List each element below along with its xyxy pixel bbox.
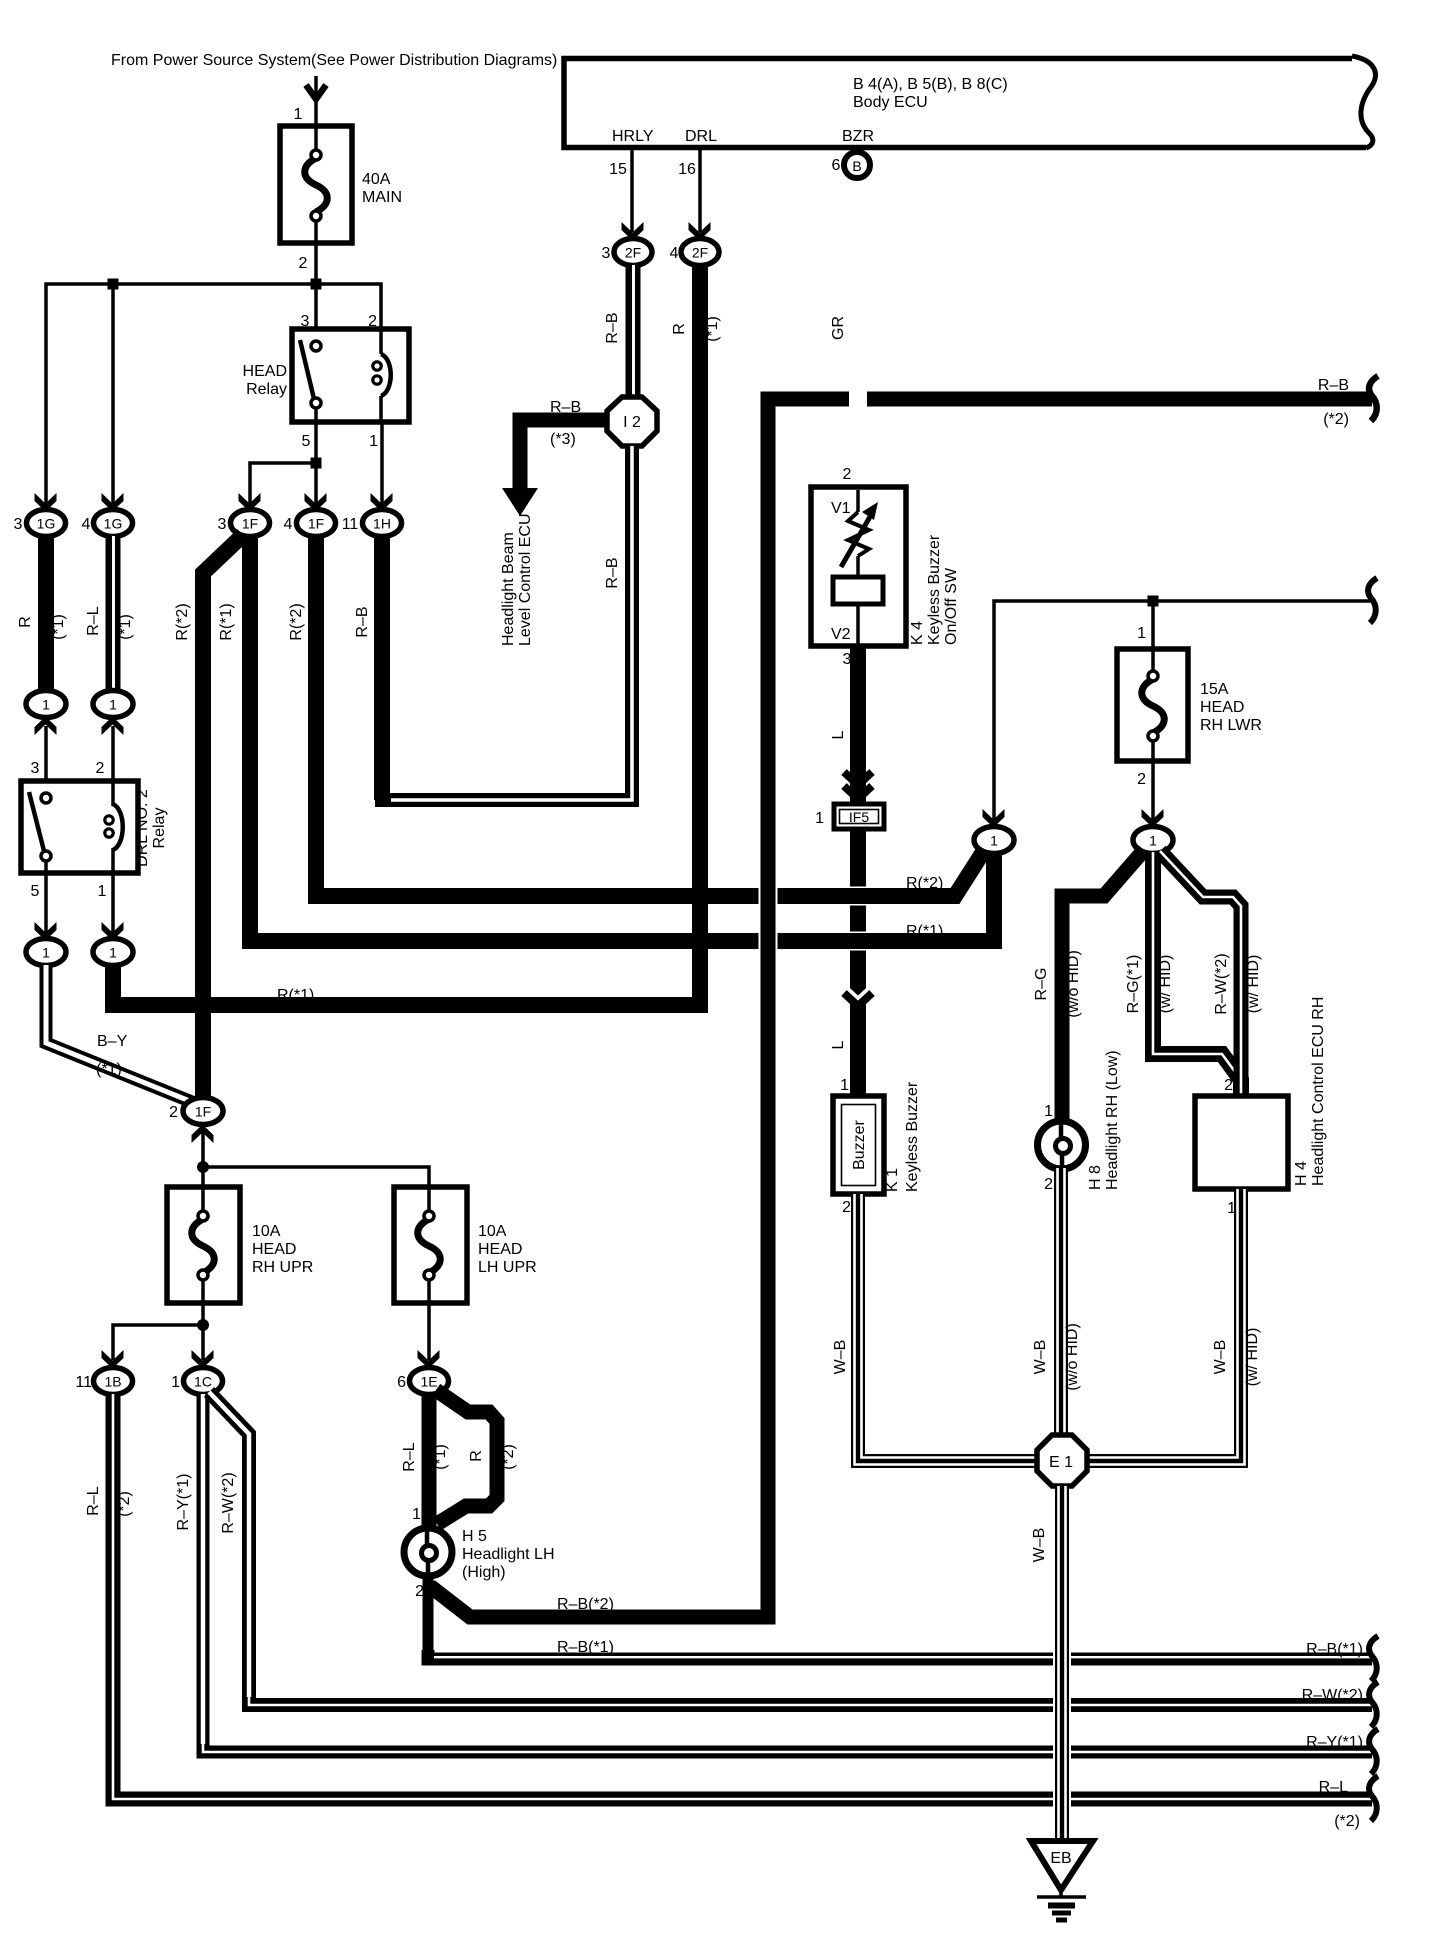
svg-text:HEAD: HEAD (478, 1241, 522, 1258)
connector 4 2F (681, 239, 719, 266)
junction oval 1 (left, R wire) (26, 691, 66, 718)
svg-text:3: 3 (14, 516, 23, 533)
svg-text:K 1: K 1 (884, 1168, 901, 1192)
svg-text:From Power Source System(See P: From Power Source System(See Power Distr… (111, 52, 557, 69)
curl ends of bottom wires at right edge (1369, 1636, 1378, 1681)
svg-text:R–W(*2): R–W(*2) (1302, 1687, 1363, 1704)
svg-text:DRL: DRL (685, 128, 717, 145)
junction oval 1 (left) (974, 827, 1014, 854)
svg-text:(*1): (*1) (96, 1061, 122, 1078)
wire: HRLY pin15 down to 2F(3) (630, 150, 634, 232)
svg-text:BZR: BZR (842, 128, 874, 145)
connector 11 1H (363, 510, 402, 537)
svg-text:Body ECU: Body ECU (853, 94, 928, 111)
svg-text:1H: 1H (373, 516, 391, 532)
svg-text:W–B: W–B (1032, 1340, 1049, 1375)
svg-text:1C: 1C (194, 1374, 212, 1390)
svg-text:R–L: R–L (401, 1442, 418, 1471)
wire: top distribution bus y=284 (46, 284, 381, 505)
junction dot on 15A bus (1148, 596, 1159, 607)
connector 4 1G (94, 510, 133, 537)
box: Body ECU (564, 56, 1375, 148)
svg-text:R–W(*2): R–W(*2) (220, 1472, 237, 1533)
wire from oval(46,704) down to DRL relay pin3 (44, 726, 48, 798)
svg-text:3: 3 (31, 760, 40, 777)
svg-text:R–B: R–B (354, 606, 371, 637)
svg-text:(*2): (*2) (116, 1491, 133, 1517)
svg-text:1: 1 (109, 945, 117, 961)
svg-text:V2: V2 (831, 626, 851, 643)
svg-text:R: R (468, 1450, 485, 1462)
bulb H8 Headlight RH (Low) (1038, 1050, 1122, 1193)
svg-text:3: 3 (301, 313, 310, 330)
wire from oval(113,704) down to DRL relay pin2 (111, 726, 115, 807)
wire R-L (*2) striped from 1B down and right to page edge (113, 1394, 1372, 1799)
wire R(*1) heavy from 1F(3) down then right (250, 536, 994, 941)
svg-text:R(*1): R(*1) (906, 923, 943, 940)
wire R-B from 2F(3) down to I2 (striped heavy) (626, 265, 641, 400)
svg-text:3: 3 (843, 651, 852, 668)
svg-text:(w/o HID): (w/o HID) (1064, 1323, 1081, 1391)
wire DRL pin1 down (111, 873, 115, 933)
fuse 40A MAIN (280, 126, 402, 243)
svg-text:1F: 1F (195, 1104, 211, 1120)
svg-text:R: R (17, 616, 34, 628)
svg-text:11: 11 (75, 1374, 92, 1391)
svg-text:(*2): (*2) (1334, 1813, 1360, 1830)
svg-text:1B: 1B (104, 1374, 121, 1390)
wire DRL pin5 down (44, 861, 48, 933)
wire: relay pin1 down to 1H (380, 422, 384, 505)
svg-text:(w/ HID): (w/ HID) (1245, 955, 1262, 1014)
component K1 Buzzer (833, 1081, 921, 1194)
wire R-Y (*1) medium double from 1C down and right (203, 1394, 1372, 1752)
arrows into ovals at 952 (35, 922, 57, 941)
svg-text:H 5: H 5 (462, 1528, 487, 1545)
svg-text:HRLY: HRLY (612, 128, 654, 145)
svg-text:(w/ HID): (w/ HID) (1244, 1328, 1261, 1387)
svg-text:R(*2): R(*2) (288, 603, 305, 640)
svg-text:R(*2): R(*2) (174, 603, 191, 640)
bulb H5 Headlight LH (High) (404, 1506, 555, 1600)
ground EB (1031, 1841, 1093, 1920)
connector 11 1B (94, 1368, 133, 1395)
junction I 2 (octagon) (607, 397, 657, 446)
svg-text:Relay: Relay (246, 381, 287, 398)
wire B-Y (*1) medium double from oval down and diagonal to 1F(2) (46, 965, 197, 1104)
svg-text:1F: 1F (242, 516, 258, 532)
wire W-B from buzzer pin2 to E1 (triple) (858, 1194, 1036, 1461)
svg-text:I 2: I 2 (623, 414, 641, 431)
wire R-W(*2) striped from right oval to H4 pin2 (1160, 851, 1241, 1096)
svg-text:R–L: R–L (85, 606, 102, 635)
fuse 15A HEAD RH LWR (1117, 649, 1262, 761)
svg-text:5: 5 (31, 883, 40, 900)
svg-text:(*1): (*1) (117, 614, 134, 640)
arrows into junction ovals at 840 (983, 809, 1005, 828)
connector IF5 (815, 804, 884, 829)
svg-text:EB: EB (1050, 1850, 1071, 1867)
svg-text:HEAD: HEAD (243, 363, 287, 380)
svg-text:R–B(*1): R–B(*1) (1306, 1641, 1363, 1658)
connector 3 1G (27, 510, 66, 537)
svg-text:H 8: H 8 (1087, 1165, 1104, 1190)
svg-text:HEAD: HEAD (252, 1241, 296, 1258)
connector 2 1F (junction of R(*2) and B-Y) (183, 1098, 223, 1125)
wire from 1F(2) down to fuse bus (201, 1130, 205, 1187)
svg-text:2F: 2F (692, 245, 708, 261)
svg-text:1: 1 (1149, 833, 1157, 849)
connector 1 1C (184, 1368, 223, 1395)
arrows up into ovals at 704 (35, 717, 57, 736)
svg-text:W–B: W–B (1031, 1528, 1048, 1563)
svg-text:R–G: R–G (1033, 968, 1050, 1001)
wire H5 pin2 stub down (423, 1573, 434, 1655)
wire W-B from H4 pin1 to E1 (triple) (1088, 1189, 1241, 1461)
connector circle B (BZR) (844, 152, 870, 178)
junction oval 1 (right) (1133, 827, 1173, 854)
svg-text:DRL NO. 2: DRL NO. 2 (134, 789, 151, 867)
svg-text:Keyless Buzzer: Keyless Buzzer (904, 1081, 921, 1192)
svg-text:Headlight LH: Headlight LH (462, 1546, 555, 1563)
svg-text:MAIN: MAIN (362, 189, 402, 206)
svg-text:(High): (High) (462, 1564, 506, 1581)
fuse 10A HEAD RH UPR (167, 1187, 313, 1303)
wire RH UPR fuse down, branch to 1B and 1C (201, 1303, 205, 1360)
svg-text:4: 4 (82, 516, 91, 533)
wire: DRL pin16 down to 2F(4) (698, 150, 702, 232)
svg-text:(*1): (*1) (50, 614, 67, 640)
junction oval 1 (R-L wire) (93, 691, 133, 718)
svg-text:R–B(*1): R–B(*1) (557, 1639, 614, 1656)
svg-text:2: 2 (843, 466, 852, 483)
svg-text:1: 1 (1044, 1103, 1053, 1120)
junction dot at (203,1167) (197, 1161, 209, 1173)
svg-text:1G: 1G (104, 516, 123, 532)
svg-text:10A: 10A (478, 1223, 507, 1240)
mid-wire arrow on L below IF5 (844, 986, 872, 999)
svg-text:R–L: R–L (85, 1486, 102, 1515)
svg-text:1G: 1G (37, 516, 56, 532)
wire R-G(*1) striped from right oval to H4 pin2 (1153, 852, 1241, 1096)
svg-text:1: 1 (990, 833, 998, 849)
svg-text:B: B (852, 158, 861, 174)
arrows into 1B 1C 1E (102, 1350, 124, 1369)
svg-text:11: 11 (342, 516, 359, 533)
wire R(*2) heavy from 1F(4) down then right (316, 536, 985, 896)
svg-text:2: 2 (842, 1199, 851, 1216)
wire LH UPR fuse down to 1E (427, 1303, 431, 1360)
svg-text:4: 4 (670, 245, 679, 262)
svg-text:B 4(A), B 5(B), B 8(C): B 4(A), B 5(B), B 8(C) (853, 76, 1008, 93)
arrows into oval row y=523 (35, 493, 57, 512)
wire R-G heavy from right oval to H8 pin1 (1062, 850, 1144, 1122)
svg-text:R–B(*2): R–B(*2) (557, 1596, 614, 1613)
wire R-L (*1) heavy from 1E down to H5 pin1 (422, 1394, 437, 1530)
svg-text:(w/ HID): (w/ HID) (1157, 955, 1174, 1014)
relay DRL NO. 2 Relay (21, 781, 168, 873)
svg-text:6: 6 (832, 157, 841, 174)
svg-text:16: 16 (678, 161, 696, 178)
wire R-W (*2) striped from 1C diagonal then down and right (209, 1392, 1372, 1705)
gap in R-B(*2) top run (GR wire position) (849, 390, 867, 408)
wire R-B (*3) from I2 left to Headlight Beam Level Control ECU (520, 420, 607, 492)
junction oval 1 (R(*1) low) (93, 939, 133, 966)
svg-text:(*2): (*2) (500, 1444, 517, 1470)
svg-text:1: 1 (171, 1374, 180, 1391)
svg-text:R: R (671, 323, 688, 335)
connector 3 1F (231, 510, 270, 537)
svg-text:R(*1): R(*1) (218, 603, 235, 640)
svg-text:4: 4 (284, 516, 293, 533)
svg-text:1: 1 (369, 433, 378, 450)
wire R (*1) heavy from 1G(3) down to junction oval (38, 536, 54, 691)
svg-text:1: 1 (109, 697, 117, 713)
svg-text:2: 2 (169, 1104, 178, 1121)
box H4 Headlight Control ECU RH (1195, 997, 1327, 1217)
svg-text:3: 3 (218, 516, 227, 533)
svg-text:2: 2 (96, 760, 105, 777)
arrow into fuse 40A (306, 85, 326, 99)
wire 15A pin2 down to junction oval (1151, 761, 1155, 826)
relay HEAD Relay (243, 329, 409, 422)
wire: bus down to HEAD relay pin3 (314, 284, 318, 341)
svg-text:5: 5 (302, 433, 311, 450)
svg-text:RH LWR: RH LWR (1200, 717, 1262, 734)
svg-text:R(*2): R(*2) (906, 875, 943, 892)
wire W-B from H8 pin2 to E1 (triple) (1054, 1168, 1068, 1437)
connector 4 1F (297, 510, 336, 537)
svg-text:2: 2 (1224, 1077, 1233, 1094)
wire: feed from power source into 40A MAIN (314, 76, 318, 126)
double chevron arrow above IF5 (844, 772, 872, 785)
svg-text:1: 1 (815, 810, 824, 827)
svg-text:Headlight Beam: Headlight Beam (500, 532, 517, 646)
svg-text:LH UPR: LH UPR (478, 1259, 537, 1276)
connector 6 1E (410, 1368, 449, 1395)
wire R-L (*1) striped from 1G(4) down (106, 536, 121, 691)
svg-text:Headlight RH (Low): Headlight RH (Low) (1104, 1050, 1121, 1190)
svg-text:R–Y(*1): R–Y(*1) (175, 1474, 192, 1531)
svg-text:1: 1 (42, 697, 50, 713)
svg-text:2: 2 (1137, 771, 1146, 788)
svg-text:GR: GR (830, 316, 847, 340)
switch K4 Keyless Buzzer On/Off SW (811, 466, 960, 668)
svg-text:1: 1 (98, 883, 107, 900)
svg-text:(w/o HID): (w/o HID) (1065, 950, 1082, 1018)
wire R(*1) heavy from oval(113,952) down right up to 2F(4) (113, 265, 700, 1005)
svg-text:R–B: R–B (604, 557, 621, 588)
svg-text:E 1: E 1 (1049, 1454, 1073, 1471)
svg-text:HEAD: HEAD (1200, 699, 1244, 716)
curl end of R-B(*2) at right edge (1369, 376, 1378, 421)
arrow into Headlight Beam Level Control ECU (502, 488, 538, 516)
wire R-B(*1) medium from H5 pin2 right to page edge (428, 1650, 1372, 1659)
wire R (*2) heavy hook from 1E to H5 pin1 (436, 1390, 497, 1524)
svg-text:1F: 1F (308, 516, 324, 532)
svg-text:15A: 15A (1200, 681, 1229, 698)
svg-text:H 4: H 4 (1293, 1161, 1310, 1186)
wire: bus drop to 1G(4) (111, 284, 115, 505)
wire R-B from I2 down to U-loop to 1H (medium double) (374, 537, 390, 800)
svg-text:Level Control ECU: Level Control ECU (517, 514, 534, 647)
junction E 1 (octagon) (1037, 1435, 1087, 1486)
svg-text:(*3): (*3) (550, 431, 576, 448)
svg-text:1: 1 (294, 106, 303, 123)
svg-text:2: 2 (299, 255, 308, 272)
svg-text:15: 15 (609, 161, 627, 178)
wire: 15A feed bus (thin) with curl at right (994, 601, 1372, 826)
svg-text:R–L: R–L (1319, 1779, 1348, 1796)
svg-text:(*1): (*1) (432, 1444, 449, 1470)
svg-text:L: L (830, 1040, 847, 1049)
wire: 40A pin2 down to bus (314, 243, 318, 284)
svg-text:1: 1 (42, 945, 50, 961)
svg-text:W–B: W–B (1212, 1340, 1229, 1375)
svg-text:2F: 2F (625, 245, 641, 261)
svg-text:L: L (830, 730, 847, 739)
svg-text:2: 2 (368, 313, 377, 330)
svg-text:R–W(*2): R–W(*2) (1213, 953, 1230, 1014)
svg-text:10A: 10A (252, 1223, 281, 1240)
wire: bus down to 15A fuse (1151, 601, 1155, 649)
wire R-B (*2) heavy: top run, long vertical, bottom run to H5 pin2 (430, 399, 1372, 1617)
svg-text:Keyless Buzzer: Keyless Buzzer (926, 534, 943, 645)
svg-text:R–B: R–B (550, 399, 581, 416)
svg-text:1: 1 (840, 1077, 849, 1094)
junction oval 1 (B-Y) (26, 939, 66, 966)
svg-text:R–B: R–B (1318, 377, 1349, 394)
svg-text:R–G(*1): R–G(*1) (1125, 955, 1142, 1014)
junction dot on bus at x=316 (311, 279, 322, 290)
svg-text:2: 2 (1044, 1176, 1053, 1193)
svg-text:40A: 40A (362, 171, 391, 188)
svg-text:W–B: W–B (832, 1340, 849, 1375)
svg-text:V1: V1 (831, 500, 851, 517)
arrow up into 1F(2) from below (192, 1125, 214, 1144)
svg-text:(*1): (*1) (704, 316, 721, 342)
wire L heavy from K4 pin3 down to Buzzer pin1 (850, 646, 866, 1096)
svg-text:1: 1 (1137, 625, 1146, 642)
svg-text:B–Y: B–Y (97, 1033, 128, 1050)
halo where R(*2)/R(*1) horizontals cross the L wire (843, 887, 873, 906)
svg-text:Headlight Control ECU RH: Headlight Control ECU RH (1310, 997, 1327, 1186)
wire R(*2) heavy from 1F(3) diagonal to x=203 down to 1F(2) (203, 535, 243, 1098)
svg-text:1: 1 (412, 1506, 421, 1523)
junction dot on bus at x=113 (108, 279, 119, 290)
svg-text:RH UPR: RH UPR (252, 1259, 313, 1276)
junction dot at relay pin5 branch (311, 458, 322, 469)
svg-text:IF5: IF5 (849, 809, 869, 825)
svg-text:K 4: K 4 (909, 621, 926, 645)
svg-text:(*2): (*2) (1323, 411, 1349, 428)
svg-text:1E: 1E (420, 1374, 437, 1390)
wire: relay pin5 down with branch to 1F(3) and 1F(4) (314, 408, 318, 505)
fuse bus y=1167 to LH UPR fuse (203, 1167, 429, 1187)
svg-text:R(*1): R(*1) (277, 987, 314, 1004)
svg-text:Buzzer: Buzzer (851, 1119, 868, 1169)
svg-text:On/Off SW: On/Off SW (943, 567, 960, 645)
svg-text:Relay: Relay (151, 808, 168, 849)
svg-text:3: 3 (602, 245, 611, 262)
svg-text:R–Y(*1): R–Y(*1) (1306, 1734, 1363, 1751)
halo + wire W-B from E1 down to EB ground (triple) (1053, 1645, 1071, 1815)
connector 3 2F (614, 239, 652, 266)
svg-text:R–B: R–B (604, 312, 621, 343)
fuse 10A HEAD LH UPR (394, 1187, 537, 1303)
halo for long R-B(*2) vertical crossing R(*2)/R(*1) (759, 884, 778, 953)
svg-text:6: 6 (397, 1374, 406, 1391)
